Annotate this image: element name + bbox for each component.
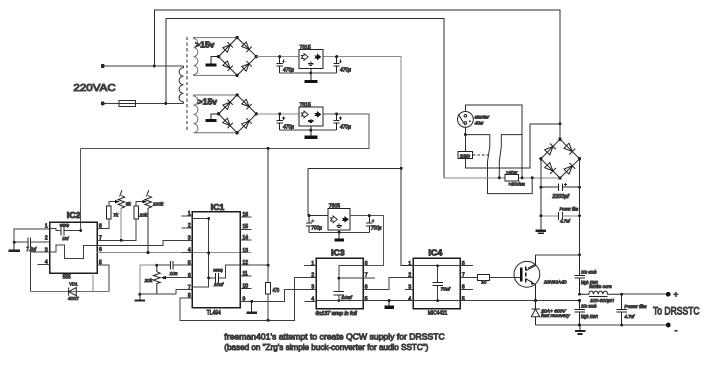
svg-text:Power film: Power film <box>560 207 579 213</box>
IC4 MIC4421 box <box>413 258 460 308</box>
icon 5k wiper arrow <box>115 200 120 203</box>
svg-text:4: 4 <box>408 297 411 303</box>
svg-text:15: 15 <box>243 224 249 230</box>
Q1 emitter with arrow <box>526 279 536 301</box>
label IC4 pin numbers right <box>462 261 465 303</box>
wire pin5 net left loop to ground <box>140 265 157 294</box>
icon U3 input arrow (open) <box>331 216 338 223</box>
capacitor C9 2200uf <box>541 183 580 191</box>
label IC2 pin numbers right <box>99 224 102 266</box>
regulator U3 7805 box <box>328 209 350 231</box>
wire IC4 pin7 to gate resistor <box>460 277 477 279</box>
node 7805 feed tee <box>400 167 403 170</box>
icon 100k wiper arrow <box>143 200 148 203</box>
wire R2 top to pot wiper <box>136 202 143 207</box>
resistor R4 inrush <box>505 175 519 181</box>
diode BR2 bottom-left <box>222 118 232 128</box>
svg-text:470µ: 470µ <box>283 67 294 73</box>
fuse F1 <box>119 100 135 106</box>
svg-text:4.7uf: 4.7uf <box>624 314 634 320</box>
svg-text:7: 7 <box>188 285 191 291</box>
wire IC2 pin2 to cap <box>14 241 50 243</box>
capacitor C6 10n <box>171 261 174 269</box>
wire BR3 minus rail down to ground <box>540 159 542 230</box>
svg-text:6: 6 <box>462 284 465 290</box>
svg-text:2: 2 <box>45 236 48 242</box>
node inductor tee <box>578 293 581 296</box>
potentiometer RV3 20k zigzag <box>153 265 160 294</box>
wire IC2 pin7 net <box>104 219 136 241</box>
wire collector to plus rail <box>536 254 580 256</box>
ground output rail <box>575 325 585 334</box>
wire row2 under caps <box>280 129 337 131</box>
wire bottom return rail <box>536 324 669 326</box>
potentiometer RV2 100k zigzag <box>145 196 152 208</box>
wire IC2 to IC1 pin3 <box>97 240 182 245</box>
ground 20k net <box>134 294 145 300</box>
wire regulator row2 output to rail <box>81 114 370 148</box>
node C1 top <box>278 55 281 58</box>
svg-text:4.7uf: 4.7uf <box>560 219 570 225</box>
svg-text:16: 16 <box>243 212 249 218</box>
node R4 right <box>521 176 524 179</box>
svg-text:100k: 100k <box>153 202 164 208</box>
svg-text:10n snub: 10n snub <box>581 304 597 310</box>
svg-text:>15v: >15v <box>198 98 218 107</box>
node terminal minus <box>666 323 671 328</box>
transformer T1 core (dashed) <box>186 37 188 131</box>
node terminal plus <box>666 292 671 297</box>
node 220VAC bottom terminal <box>101 101 105 105</box>
RV1 top lead <box>120 190 122 196</box>
svg-text:5: 5 <box>462 297 465 303</box>
diode BR3 top-left <box>544 143 556 155</box>
diode BR3 top-right <box>564 143 576 155</box>
wire R5 to gate <box>489 277 520 279</box>
svg-text:fast recovery: fast recovery <box>541 313 570 319</box>
node snubber bottom tee <box>578 324 581 327</box>
resistor R5 10 <box>478 275 490 281</box>
svg-text:470µ: 470µ <box>340 125 351 131</box>
wire BR2 output to regulator row2 <box>256 113 299 115</box>
transformer T1 primary winding <box>179 66 183 103</box>
svg-text:10uf: 10uf <box>214 282 224 287</box>
icon U1 output arrow (solid) <box>314 54 321 61</box>
icon U3 gnd pin <box>336 224 341 228</box>
wire R1 top to pot wiper <box>109 202 116 207</box>
svg-text:7: 7 <box>99 235 102 241</box>
svg-text:>30w: >30w <box>506 170 517 176</box>
capacitor C7 700u 7805 input <box>306 216 315 233</box>
IC3 internal supply sketch <box>339 266 375 301</box>
node R4 left <box>498 176 501 179</box>
wire AC line to bridge bottom <box>444 177 560 179</box>
ground BR1 minus <box>206 57 219 67</box>
wire R3 leads <box>267 265 269 320</box>
icon U2 output arrow (solid) <box>314 111 321 118</box>
node junction bottom riser <box>164 102 167 105</box>
wire IC3 pin5 to IC4 pin4 <box>316 300 413 302</box>
diode BR3 bottom-right <box>564 163 576 175</box>
svg-text:7k: 7k <box>113 212 119 218</box>
wire 220VAC live <box>103 65 184 67</box>
wire IC3 pin6 to IC4 pin2 <box>363 278 413 290</box>
node row2 gnd junction <box>309 129 312 132</box>
ground U3 <box>334 230 343 241</box>
capacitor IC1 internal cercap 10uf <box>216 273 219 283</box>
diode BR1 top-left <box>222 42 232 52</box>
capacitor IC4 internal 70uf <box>432 282 442 285</box>
icon Q1 emitter arrow <box>530 280 534 285</box>
svg-text:8: 8 <box>462 261 465 267</box>
svg-text:4: 4 <box>311 297 314 303</box>
lamp starter bulb <box>458 112 474 128</box>
svg-text:starter: starter <box>475 115 490 120</box>
wire coil bottom loop to bridge top <box>465 124 560 168</box>
node pin1/pin2 junction <box>13 241 16 244</box>
svg-text:2: 2 <box>408 273 411 279</box>
icon U2 input arrow (open) <box>301 111 308 118</box>
node output cap bottom <box>620 324 623 327</box>
node R3 bottom junction <box>267 319 270 322</box>
svg-text:70uf: 70uf <box>441 286 451 291</box>
transformer T1 secondary winding 1 <box>194 38 238 76</box>
svg-text:ferrite core: ferrite core <box>589 284 612 290</box>
svg-text:7805: 7805 <box>329 204 340 210</box>
icon starter electrodes <box>458 114 466 125</box>
wire IC4 pin1 feed <box>401 168 413 265</box>
svg-text:VD1: VD1 <box>69 282 78 288</box>
node emitter junction <box>534 299 537 302</box>
node output cap top <box>620 293 623 296</box>
node 220VAC top terminal <box>101 64 105 68</box>
svg-text:3: 3 <box>408 284 411 290</box>
svg-text:14: 14 <box>243 235 249 241</box>
node BR2 vertices <box>217 93 258 134</box>
node lamp junction <box>464 133 467 136</box>
node IC1 internal <box>207 217 210 220</box>
capacitor C11 snubber top <box>574 255 584 294</box>
ground main DC minus <box>536 231 546 234</box>
wire L1 to plus terminal <box>622 293 669 295</box>
node BR1 vertices <box>217 36 258 77</box>
svg-text:6: 6 <box>188 273 191 279</box>
IC4 pin stubs <box>405 266 473 290</box>
svg-text:3: 3 <box>311 284 314 290</box>
icon U1 input arrow (open) <box>301 54 308 61</box>
diode VD1 <box>69 288 77 296</box>
bridge rectifier BR3 diamond <box>541 139 580 178</box>
svg-text:8: 8 <box>365 261 368 267</box>
node C8 top <box>368 214 371 217</box>
svg-text:IC2: IC2 <box>67 211 81 220</box>
node U3 gnd junction <box>338 231 341 234</box>
relay coil K1 box 220 <box>458 152 473 159</box>
wire IC1 pin8 loop to IC3 pin2 <box>180 278 316 321</box>
label IC1 pin numbers left <box>188 211 191 299</box>
transformer T1 secondary winding 2 <box>194 95 238 133</box>
label IC2 pin numbers left <box>45 224 48 266</box>
relay coil K1 lead <box>464 135 466 152</box>
svg-text:7815: 7815 <box>300 102 311 108</box>
IC1 internal rail sketch <box>192 218 240 287</box>
wire ground run to IC1 pin7 <box>140 290 182 295</box>
capacitor C4 470u row2 output <box>334 114 343 130</box>
diode BR2 top-right <box>241 99 251 109</box>
node C10 left <box>539 214 542 217</box>
svg-text:10n: 10n <box>170 271 178 277</box>
svg-text:freeman401's attempt to create: freeman401's attempt to create QCW suppl… <box>224 332 444 342</box>
wire IC1 pin9 to IC3 pin3 <box>240 289 316 301</box>
svg-text:1: 1 <box>311 261 314 267</box>
wire 10n/20k net to IC1 pin5 <box>157 264 182 266</box>
svg-text:-: - <box>675 326 678 336</box>
node main bridge feed <box>559 122 562 125</box>
icon L1 core line <box>589 296 608 298</box>
IC3 6n137 box <box>316 258 363 308</box>
IC1 pin stubs left <box>182 216 193 298</box>
node opto ground junction <box>388 299 391 302</box>
node junction top riser <box>153 65 156 68</box>
RV2 top lead <box>146 190 148 196</box>
capacitor IC3 internal 10uf <box>334 292 344 295</box>
svg-text:10n snub: 10n snub <box>581 269 597 275</box>
wire 7805 under caps <box>309 231 369 233</box>
svg-text:IC3: IC3 <box>331 248 345 257</box>
diode BR1 bottom-right <box>241 61 251 71</box>
wire top outer loop <box>154 10 560 124</box>
wire rail drop to IC1 pin12 <box>267 148 269 265</box>
wire rail drop to IC2 <box>80 148 82 230</box>
regulator U2 7815 box <box>299 107 323 126</box>
node collector tee <box>578 253 581 256</box>
IC1 pin stubs right <box>240 217 252 288</box>
svg-text:7815: 7815 <box>300 45 311 51</box>
node pin5 net junction <box>155 264 158 267</box>
svg-text:10: 10 <box>481 279 487 285</box>
svg-text:10k: 10k <box>140 212 148 218</box>
wire IC2 bottom to VD1 <box>92 273 94 292</box>
node IC4 internal bottom <box>436 299 439 302</box>
wire bridge top vertex feed <box>559 124 561 139</box>
svg-text:10uf: 10uf <box>62 236 69 241</box>
svg-text:40w: 40w <box>475 121 484 126</box>
capacitor IC2 internal cercap 10uf <box>61 226 64 235</box>
icon RV3 wiper arrow <box>161 276 166 280</box>
relay contact blade 2 <box>499 135 522 178</box>
Q1 body segments <box>525 266 527 282</box>
svg-text:20N60A4D: 20N60A4D <box>543 280 567 286</box>
wire RV1 bottom to pin7 net <box>120 208 122 240</box>
capacitor C2 470u row1 output <box>334 57 343 73</box>
ground row2 regulator <box>305 126 318 139</box>
wire BR1 output to regulator row1 <box>256 56 299 58</box>
ground BR2 minus <box>206 114 219 122</box>
label IC3 pin numbers right <box>365 261 368 303</box>
regulator U3 7805 feed wire <box>308 168 401 215</box>
diode BR3 bottom-left <box>544 162 556 174</box>
Q1 gate bar <box>520 267 522 281</box>
node C7 top <box>308 214 311 217</box>
node pin9 ground junction <box>250 300 253 303</box>
node IC2 internal supply <box>79 229 82 232</box>
node bypass junction <box>531 176 534 179</box>
node C3 top <box>278 112 281 115</box>
svg-text:cercap: cercap <box>60 223 70 228</box>
capacitor C3 470u row2 input <box>277 114 286 130</box>
wire lamp to coil node <box>464 127 466 134</box>
svg-text:4: 4 <box>188 247 191 253</box>
wire 220VAC neutral <box>103 102 184 104</box>
svg-text:11: 11 <box>243 271 248 277</box>
svg-text:6n137 wrap in foil: 6n137 wrap in foil <box>316 311 358 317</box>
wire IC2 pin3 to VD1 <box>30 252 49 291</box>
diode D5 freewheel <box>531 301 540 325</box>
capacitor C8 700u 7805 output <box>366 216 375 233</box>
svg-text:high ESR: high ESR <box>581 314 598 320</box>
wire IC2 pin6 to IC1 pin4 <box>97 252 252 254</box>
ground IC2 input <box>8 242 20 251</box>
label IC1 pin numbers right <box>243 212 249 302</box>
capacitor C1 470u row1 input <box>277 57 286 73</box>
svg-text:(based on "Zrg's simple buck-c: (based on "Zrg's simple buck-converter f… <box>224 342 428 352</box>
wire coil-contact dashed link <box>473 154 489 156</box>
relay box top edge <box>465 105 522 178</box>
regulator U1 7815 box <box>299 50 323 69</box>
svg-text:2: 2 <box>311 273 314 279</box>
ground row1 regulator <box>305 68 318 83</box>
label IC4 pin numbers left <box>408 261 411 303</box>
node pin12/470 junction <box>267 264 270 267</box>
node 20k ground junction <box>138 293 141 296</box>
IC2 pin stubs left <box>43 229 50 264</box>
svg-text:13: 13 <box>243 248 249 254</box>
capacitor C5 7.8uf <box>28 237 31 247</box>
wire row1 under caps <box>280 72 337 74</box>
IC2 internal bypass wire <box>50 229 81 231</box>
potentiometer RV1 5k zigzag <box>118 196 125 208</box>
svg-text:20k: 20k <box>144 278 153 284</box>
IC3 pin stubs left <box>304 266 316 302</box>
inductor L1 <box>580 291 622 294</box>
svg-text:Power film: Power film <box>624 304 646 310</box>
node starter dot <box>469 120 471 122</box>
wire BR3 plus rail down <box>579 159 581 255</box>
wire IC1 pin12 <box>240 264 268 266</box>
node IC3 internal bottom <box>337 299 340 302</box>
svg-text:+: + <box>674 290 679 299</box>
capacitor C12 snubber bottom <box>574 301 584 325</box>
bridge rectifier BR2 diamond <box>219 95 257 133</box>
svg-text:10uf: 10uf <box>341 295 352 300</box>
transistor Q1 IGBT circle <box>514 261 540 287</box>
resistor R2 10k <box>134 206 139 219</box>
svg-text:1: 1 <box>188 211 191 217</box>
svg-text:100-300µH: 100-300µH <box>590 298 614 304</box>
node C2 top <box>335 55 338 58</box>
wire top inner loop <box>166 19 444 178</box>
bridge rectifier BR1 diamond <box>219 38 257 76</box>
svg-text:2: 2 <box>188 223 191 229</box>
node row1 gnd junction <box>309 72 312 75</box>
diode BR2 bottom-right <box>241 118 251 128</box>
node IC4 internal top <box>436 264 439 267</box>
diode BR1 bottom-left <box>222 60 232 70</box>
svg-text:5: 5 <box>188 260 191 266</box>
capacitor C13 output power film <box>616 294 627 325</box>
IC2 internal comparator sketch <box>50 245 97 259</box>
resistor R1 7k <box>107 206 112 219</box>
icon U2 gnd pin <box>308 119 313 123</box>
svg-text:2200µf: 2200µf <box>551 194 569 200</box>
svg-text:555: 555 <box>63 274 71 280</box>
svg-text:cercap: cercap <box>213 267 223 272</box>
wire IC2 pin1 loop <box>14 229 50 242</box>
IC4 internal supply sketch <box>413 266 460 301</box>
node emitter rail tee <box>578 299 581 302</box>
node C9 right <box>578 186 581 189</box>
ground IC3/IC4 <box>385 301 394 309</box>
node C9 left <box>539 186 542 189</box>
Q1 collector <box>526 255 536 271</box>
diode BR2 top-left <box>222 99 232 109</box>
svg-text:IC4: IC4 <box>428 248 442 257</box>
wire IC2 pin5 to VD1 <box>97 265 109 292</box>
svg-text:4007: 4007 <box>68 296 79 302</box>
relay contact blade 1 <box>465 135 532 194</box>
IC2 555 box <box>50 222 97 273</box>
wire RV2 bottom to pin6 net <box>147 208 149 253</box>
wire U3 output <box>350 216 383 266</box>
svg-text:3: 3 <box>188 235 191 241</box>
node pin7/5k junction <box>120 239 123 242</box>
icon U1 gnd pin <box>308 62 313 66</box>
svg-text:700µ: 700µ <box>311 225 322 231</box>
svg-text:5: 5 <box>365 297 368 303</box>
wire IC4 pin5 to emitter <box>460 300 579 302</box>
label IC3 pin numbers left <box>311 261 314 303</box>
diode BR1 top-right <box>241 42 251 52</box>
node +15v rail junction <box>267 147 270 150</box>
node pin6/100k junction <box>147 251 150 254</box>
node IC3 internal top <box>337 277 340 280</box>
node C10 right <box>578 214 581 217</box>
svg-text:700µ: 700µ <box>371 225 382 231</box>
svg-text:To DRSSTC: To DRSSTC <box>653 306 700 318</box>
wire VD1 anode-cathode <box>30 291 109 293</box>
svg-text:MIC4421: MIC4421 <box>428 310 447 316</box>
svg-text:10: 10 <box>243 283 249 289</box>
svg-text:5k: 5k <box>126 202 132 208</box>
svg-text:220VAC: 220VAC <box>73 83 115 94</box>
ground IC1 pin9 <box>247 301 257 312</box>
resistor R3 470 <box>266 283 271 294</box>
svg-text:IC1: IC1 <box>211 203 225 212</box>
node BR3 vertices <box>539 138 581 180</box>
svg-text:220: 220 <box>460 153 471 158</box>
svg-text:470µ: 470µ <box>340 67 351 73</box>
icon U3 output arrow (solid) <box>342 216 349 223</box>
node C4 top <box>335 112 338 115</box>
svg-text:TL494: TL494 <box>207 310 222 316</box>
IC2 pin stubs right <box>97 229 104 265</box>
wire IC2 pin8 to R 7k <box>97 219 109 229</box>
svg-text:>20ohm: >20ohm <box>509 182 525 188</box>
svg-text:470: 470 <box>273 288 280 294</box>
wire regulator row1 output <box>323 57 401 169</box>
svg-text:>15v: >15v <box>195 41 215 50</box>
capacitor C10 power film 4.7uf <box>541 212 580 220</box>
